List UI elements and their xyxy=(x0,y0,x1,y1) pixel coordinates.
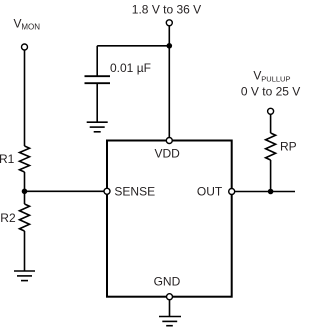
pin OUT xyxy=(229,189,235,195)
wire xyxy=(24,231,26,271)
label VMON xyxy=(14,17,41,32)
wire xyxy=(97,45,169,47)
svg-text:OUT: OUT xyxy=(197,185,223,199)
terminal VMON xyxy=(22,44,28,50)
svg-text:0 V to 25 V: 0 V to 25 V xyxy=(241,84,300,98)
resistor R2 xyxy=(20,204,30,231)
ground xyxy=(159,317,181,326)
wire xyxy=(24,172,26,204)
svg-text:R1: R1 xyxy=(0,152,15,166)
node vdd junction xyxy=(167,43,173,49)
pin VDD xyxy=(166,138,172,144)
wire xyxy=(25,190,105,192)
node out junction xyxy=(268,189,274,195)
svg-text:1.8 V to 36 V: 1.8 V to 36 V xyxy=(132,3,201,17)
svg-text:RP: RP xyxy=(280,140,297,154)
svg-text:MON: MON xyxy=(21,23,40,32)
svg-text:VDD: VDD xyxy=(155,147,181,161)
wire xyxy=(96,46,98,76)
svg-text:V: V xyxy=(14,17,22,31)
pin SENSE xyxy=(104,188,110,194)
svg-text:GND: GND xyxy=(154,274,181,288)
op-amp U1 box xyxy=(107,141,232,297)
resistor R1 xyxy=(20,146,30,172)
svg-text:V: V xyxy=(253,69,261,83)
label VPULLUP xyxy=(253,69,290,84)
terminal VDD supply xyxy=(166,20,172,26)
pin GND xyxy=(167,294,173,300)
wire xyxy=(168,26,170,139)
svg-text:0.01 µF: 0.01 µF xyxy=(110,61,151,75)
terminal VPULLUP xyxy=(268,108,274,114)
node sense junction xyxy=(22,189,28,195)
wire xyxy=(270,114,272,133)
svg-text:SENSE: SENSE xyxy=(114,185,155,199)
wire xyxy=(169,300,171,317)
capacitor C1 0.01 uF xyxy=(85,76,111,83)
svg-text:R2: R2 xyxy=(0,211,16,225)
wire xyxy=(270,160,272,192)
ground xyxy=(87,122,108,132)
wire xyxy=(235,191,295,193)
wire xyxy=(24,50,26,146)
ground xyxy=(14,271,35,281)
svg-text:PULLUP: PULLUP xyxy=(261,74,290,83)
wire xyxy=(96,83,98,122)
resistor RP xyxy=(266,133,276,160)
